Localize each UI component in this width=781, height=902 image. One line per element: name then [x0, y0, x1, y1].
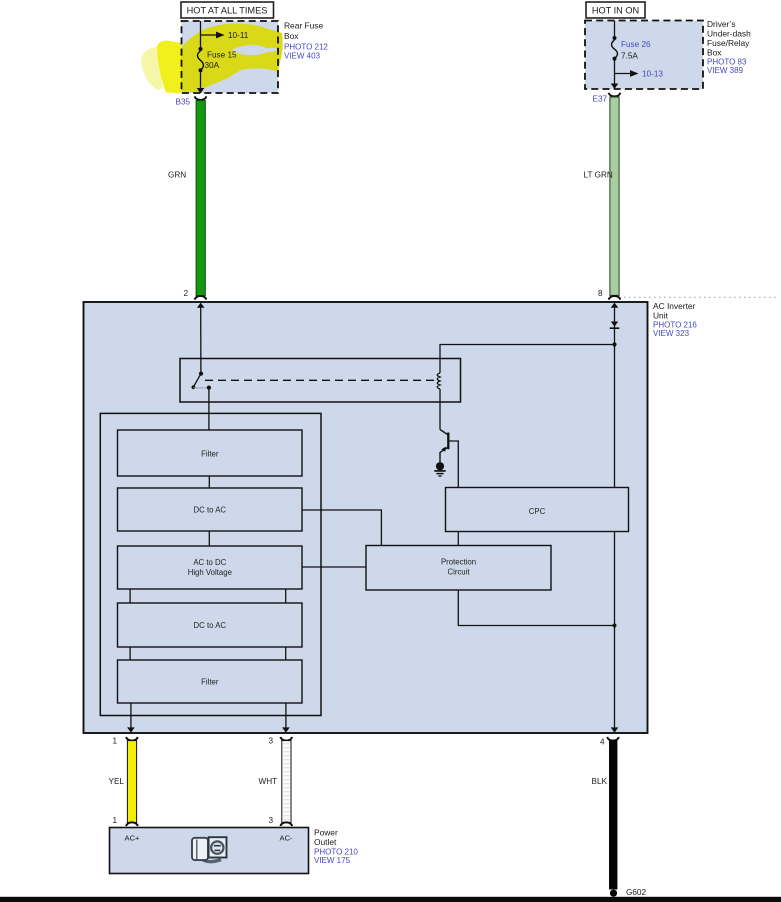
in-line connector symbol on pin 8 wire: [611, 322, 618, 327]
junction node: [612, 342, 616, 346]
svg-text:Filter: Filter: [201, 449, 219, 458]
ground G602: [610, 890, 617, 897]
wire CPC to protection: [457, 532, 459, 546]
AC Inverter Unit box: [84, 302, 648, 733]
svg-text:Box: Box: [707, 48, 722, 58]
svg-text:DC to AC: DC to AC: [194, 506, 227, 515]
svg-text:High Voltage: High Voltage: [188, 568, 232, 577]
Filter box (lower): [118, 660, 303, 703]
svg-text:Rear Fuse: Rear Fuse: [284, 21, 323, 31]
Protection Circuit box: [366, 546, 551, 591]
svg-text:Fuse/Relay: Fuse/Relay: [707, 38, 750, 48]
wire LT GRN: [610, 97, 619, 295]
wire protection to pin 4 line: [458, 590, 614, 626]
wire switch to Filter: [208, 388, 210, 430]
svg-text:Power: Power: [314, 828, 338, 838]
base wire to CPC: [448, 441, 458, 488]
svg-text:LT GRN: LT GRN: [584, 171, 613, 180]
connector cap pin 3 bottom: [280, 822, 292, 826]
wire filter to pin 1: [130, 703, 132, 729]
svg-text:Filter: Filter: [201, 678, 219, 687]
svg-text:30A: 30A: [205, 61, 220, 70]
svg-text:Fuse 15: Fuse 15: [207, 50, 237, 59]
wire GRN: [196, 101, 205, 296]
svg-text:E37: E37: [593, 95, 608, 104]
junction dot: [199, 47, 203, 51]
svg-text:GRN: GRN: [168, 171, 186, 180]
wire branch to relay coil: [440, 345, 615, 374]
DC to AC box (lower): [118, 603, 303, 647]
svg-text:WHT: WHT: [259, 777, 278, 786]
wire below fuse: [614, 59, 616, 85]
svg-text:1: 1: [113, 816, 118, 825]
arrowhead at box edge: [611, 84, 619, 90]
wire WHT: [282, 741, 291, 823]
svg-text:4: 4: [600, 738, 605, 747]
svg-text:10-11: 10-11: [228, 31, 249, 40]
svg-text:CPC: CPC: [529, 507, 546, 516]
pin 4 exit arrow: [611, 727, 619, 732]
svg-text:AC-: AC-: [280, 834, 294, 843]
svg-text:Fuse 26: Fuse 26: [621, 40, 651, 49]
CPC box: [446, 488, 629, 532]
DC to AC box (upper): [118, 488, 303, 531]
svg-text:8: 8: [598, 289, 603, 298]
wires dc-ac to filter lower: [129, 647, 131, 660]
wire filter to pin 3: [285, 703, 287, 729]
svg-text:G602: G602: [626, 888, 646, 897]
relay box: [180, 359, 461, 403]
wire inside rear fuse box: [200, 21, 202, 47]
wire to box edge with arrowhead: [200, 70, 202, 89]
fuse F15 squiggle: [198, 51, 204, 70]
svg-text:HOT AT ALL TIMES: HOT AT ALL TIMES: [187, 6, 268, 16]
svg-text:Outlet: Outlet: [314, 837, 337, 847]
svg-text:7.5A: 7.5A: [621, 52, 638, 61]
svg-text:VIEW 175: VIEW 175: [314, 856, 351, 865]
arrow to 10-11: [201, 34, 218, 36]
wire BLK: [610, 741, 617, 889]
Filter box (upper): [118, 430, 303, 476]
relay actuation dashed line: [205, 379, 435, 381]
svg-text:3: 3: [269, 737, 274, 746]
ground bus bar: [0, 897, 781, 902]
power outlet icon: [192, 837, 227, 861]
label box HOT AT ALL TIMES: [181, 2, 274, 18]
inner module sub-box: [100, 413, 321, 715]
wire from pin 2 to relay switch: [200, 306, 202, 372]
svg-text:B35: B35: [176, 98, 191, 107]
wire CPC to pin 4: [614, 532, 616, 729]
rear fuse box (dashed): [182, 21, 279, 93]
arrow to 10-13: [615, 73, 632, 75]
svg-text:HOT IN ON: HOT IN ON: [592, 6, 639, 16]
wire YEL: [127, 741, 136, 823]
svg-text:AC to DC: AC to DC: [193, 558, 226, 567]
wire from pin 8 down to CPC: [614, 306, 616, 488]
svg-text:1: 1: [113, 737, 118, 746]
connector cap pin 3 top: [280, 737, 292, 741]
svg-text:VIEW 389: VIEW 389: [707, 66, 744, 75]
svg-text:10-13: 10-13: [642, 70, 663, 79]
svg-text:PHOTO 212: PHOTO 212: [284, 43, 328, 52]
yellow highlighter blob: [141, 23, 283, 93]
power outlet box: [110, 828, 309, 874]
svg-text:AC Inverter: AC Inverter: [653, 301, 696, 311]
svg-text:Protection: Protection: [441, 558, 476, 567]
pin 8 entry arrow: [611, 303, 619, 308]
relay switch: [199, 372, 203, 376]
svg-text:Unit: Unit: [653, 310, 669, 320]
svg-text:3: 3: [269, 816, 274, 825]
wire ac-dc to protection: [302, 566, 366, 568]
wires ac-dc to dc-ac lower: [129, 589, 131, 603]
svg-text:VIEW 403: VIEW 403: [284, 52, 321, 61]
svg-text:Box: Box: [284, 31, 299, 41]
svg-text:YEL: YEL: [109, 777, 125, 786]
svg-text:Under-dash: Under-dash: [707, 29, 751, 39]
wire filter to dc-ac: [208, 476, 210, 488]
svg-text:2: 2: [184, 289, 189, 298]
faint page dotted line: [624, 296, 778, 298]
connector cap pin 1 bottom: [126, 822, 138, 826]
connector cap pin 1 top: [126, 737, 138, 741]
svg-text:Driver’s: Driver’s: [707, 19, 736, 29]
relay coil: [437, 373, 440, 389]
fuse F26 squiggle: [612, 40, 618, 58]
connector cap pin 4 top: [607, 737, 619, 741]
svg-text:AC+: AC+: [125, 834, 141, 843]
svg-text:BLK: BLK: [592, 777, 608, 786]
AC to DC High Voltage box: [118, 546, 303, 589]
svg-text:VIEW 323: VIEW 323: [653, 329, 690, 338]
svg-text:Circuit: Circuit: [447, 567, 470, 576]
wire coil to transistor: [439, 389, 441, 430]
ground node at emitter: [434, 462, 445, 476]
wire dc-ac to ac-dc: [208, 531, 210, 546]
transistor Q1: [440, 430, 448, 463]
driver's under-dash fuse/relay box (dashed): [585, 21, 703, 90]
label box HOT IN ON: [586, 2, 645, 18]
wire inside driver's box: [614, 21, 616, 37]
svg-text:DC to AC: DC to AC: [194, 621, 227, 630]
wire dc-ac upper to protection: [302, 510, 381, 546]
pin 2 entry arrow: [197, 303, 205, 308]
